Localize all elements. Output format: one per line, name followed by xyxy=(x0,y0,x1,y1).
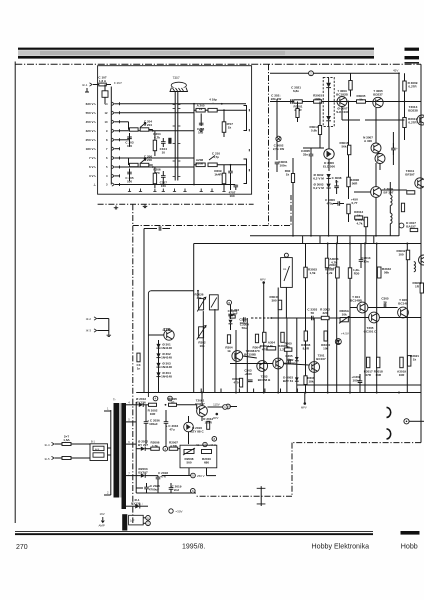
svg-text:5,6k: 5,6k xyxy=(311,128,317,132)
crystal on frame xyxy=(260,486,262,506)
svg-text:12: 12 xyxy=(105,111,108,115)
stub cap on x144 xyxy=(159,226,161,231)
svg-text:6 V∿: 6 V∿ xyxy=(89,165,97,169)
svg-text:Σ 2N7: Σ 2N7 xyxy=(114,81,122,85)
svg-text:33n: 33n xyxy=(303,152,308,156)
svg-text:6,2 V M: 6,2 V M xyxy=(313,176,324,180)
svg-text:10k: 10k xyxy=(323,346,328,350)
svg-text:47k: 47k xyxy=(196,296,201,300)
node 2 terminal xyxy=(309,71,314,76)
row wire 10 xyxy=(120,121,129,123)
svg-text:320 V∿: 320 V∿ xyxy=(86,129,97,133)
svg-text:470: 470 xyxy=(262,347,267,351)
res R305 xyxy=(284,348,292,351)
res R3021 xyxy=(408,356,411,367)
svg-text:7 V∿: 7 V∿ xyxy=(89,156,97,160)
terminal 4 xyxy=(153,396,158,401)
svg-text:10: 10 xyxy=(162,150,166,154)
svg-text:AVR: AVR xyxy=(95,448,100,451)
speaker coil upper xyxy=(387,407,391,417)
svg-text:B: B xyxy=(228,301,230,305)
preamp terminal B xyxy=(227,300,232,305)
capacitor C3010 xyxy=(391,148,396,150)
svg-text:2n2: 2n2 xyxy=(174,488,180,492)
block wires xyxy=(148,334,163,336)
schematic frame top border (dash-dot) xyxy=(15,63,421,65)
rail x=336.7 xyxy=(336,244,338,393)
transistor T2001 xyxy=(197,406,208,417)
top right margin bars xyxy=(405,48,420,51)
svg-text:3 V∿: 3 V∿ xyxy=(89,174,97,178)
transistor T304 xyxy=(357,302,368,313)
resistor R205 xyxy=(208,108,217,112)
svg-text:10k: 10k xyxy=(199,344,204,348)
input transistors T3008 xyxy=(232,351,243,362)
svg-text:680: 680 xyxy=(204,460,209,464)
schematic frame left border xyxy=(14,62,16,524)
tuner bottom dash-dot xyxy=(98,203,254,205)
capacitor C207 xyxy=(161,176,166,178)
diode D2013 xyxy=(139,403,143,407)
svg-text:MPV: MPV xyxy=(260,278,266,282)
svg-text:1,6A: 1,6A xyxy=(63,438,70,442)
svg-text:100: 100 xyxy=(161,184,166,188)
svg-text:BC182B: BC182B xyxy=(336,92,348,96)
resistor R3008 xyxy=(347,177,350,187)
terminal 10 xyxy=(226,404,231,409)
wire T3009 base row xyxy=(354,191,371,193)
resistor R204a xyxy=(140,128,149,131)
svg-text:1N4148: 1N4148 xyxy=(161,365,172,369)
tube stem lines xyxy=(174,92,176,181)
transistor T306 xyxy=(398,307,409,318)
res R3310 xyxy=(324,331,327,341)
diode D306 xyxy=(229,320,233,324)
diode D302 xyxy=(156,353,160,357)
svg-text:R30: R30 xyxy=(354,271,360,275)
MPV bottom node xyxy=(304,402,307,405)
res R3018 xyxy=(377,357,380,368)
tap 4 xyxy=(126,404,136,406)
extra cap C3005 xyxy=(309,154,314,156)
svg-text:100u: 100u xyxy=(353,378,360,382)
bus to T2001 xyxy=(201,393,203,406)
wire cap C3010 xyxy=(392,132,394,148)
capacitor C208 xyxy=(200,114,202,127)
svg-text:100uF: 100uF xyxy=(149,422,158,426)
svg-text:1,6 A: 1,6 A xyxy=(99,79,107,83)
tap 7 xyxy=(126,475,136,477)
svg-text:115V: 115V xyxy=(213,403,220,407)
svg-text:180R: 180R xyxy=(205,420,213,424)
svg-text:14: 14 xyxy=(105,102,108,106)
svg-text:47u: 47u xyxy=(169,427,174,431)
resistor R205a xyxy=(130,163,139,166)
cap C3304 xyxy=(244,317,246,322)
resistor R3022 xyxy=(407,191,415,194)
preamp trimmer R3026 xyxy=(199,299,204,310)
rail x=407.3 xyxy=(406,244,408,393)
svg-text:Ж-3: Ж-3 xyxy=(86,329,92,333)
bracket right bottom xyxy=(244,159,247,184)
trimmer arrow cluster A xyxy=(140,123,146,128)
svg-text:MPV: MPV xyxy=(213,417,219,420)
wire trio bases xyxy=(243,356,257,358)
svg-text:1k: 1k xyxy=(228,125,232,129)
transistor T3008b xyxy=(375,154,385,164)
res R304 xyxy=(267,347,276,350)
svg-text:10R: 10R xyxy=(150,412,156,416)
wire T3003 collector xyxy=(341,107,343,121)
cap C308 xyxy=(358,381,363,383)
sound section bottom dash-dot xyxy=(133,195,291,226)
svg-text:BY126 ↓: BY126 ↓ xyxy=(131,501,143,505)
svg-text:4,7W: 4,7W xyxy=(170,444,177,448)
trimmer R2008 xyxy=(184,450,194,454)
svg-text:1k: 1k xyxy=(357,213,361,217)
tuner bottom stubs xyxy=(128,189,131,192)
cap C2018 xyxy=(156,477,161,479)
svg-text:1n: 1n xyxy=(137,366,141,370)
transistor T3009 xyxy=(371,187,382,198)
svg-text:45V: 45V xyxy=(393,68,398,72)
resistor R207 xyxy=(222,122,226,133)
resistor R3009 xyxy=(403,81,406,91)
svg-text:BY297: BY297 xyxy=(138,470,148,474)
svg-text:BC107: BC107 xyxy=(316,357,326,361)
res R3033 xyxy=(348,268,351,279)
frame step bottom-right horizontal xyxy=(292,442,421,444)
svg-text:1,5k: 1,5k xyxy=(152,444,158,448)
svg-text:BD238: BD238 xyxy=(408,108,418,112)
frame bottom dash-dot to PSU xyxy=(196,495,292,497)
capacitor C3006 xyxy=(338,201,340,206)
svg-text:100: 100 xyxy=(127,179,132,183)
svg-text:MPV: MPV xyxy=(301,406,307,410)
transformer core gray xyxy=(119,403,122,498)
amp block top rail xyxy=(194,243,421,245)
wire to edge xyxy=(409,420,424,422)
svg-text:1k4R: 1k4R xyxy=(214,172,222,176)
diode D305 xyxy=(335,339,341,345)
resistor R208 xyxy=(208,163,217,167)
ground left tuner xyxy=(114,206,119,209)
main h-wire sound stage xyxy=(270,101,421,103)
res A3003 xyxy=(325,258,328,268)
svg-text:47n: 47n xyxy=(160,474,165,478)
svg-text:10: 10 xyxy=(105,120,108,124)
bracket right top xyxy=(244,106,247,131)
cap C3013 xyxy=(359,260,364,262)
transistor T302 xyxy=(273,358,284,369)
resistor R206a xyxy=(140,163,149,166)
top header halftone band xyxy=(18,50,374,56)
svg-text:+4,5V: +4,5V xyxy=(341,332,349,336)
svg-text:8,2R: 8,2R xyxy=(303,346,310,350)
choke L3001 xyxy=(390,195,392,206)
svg-text:BY126: BY126 xyxy=(136,400,146,404)
svg-text:Ж-2: Ж-2 xyxy=(86,317,92,321)
svg-text:100u: 100u xyxy=(240,321,247,325)
trimmer arrow cluster B xyxy=(140,159,146,164)
preamp vertical wires xyxy=(197,295,199,298)
svg-text:1995/8.: 1995/8. xyxy=(182,544,205,551)
transformer core bar right xyxy=(122,403,127,509)
lower long wire xyxy=(297,384,421,386)
input corner line xyxy=(151,290,194,292)
resistor A208 xyxy=(196,163,205,167)
svg-text:2,5k 1W: 2,5k 1W xyxy=(273,147,284,151)
svg-text:BF397: BF397 xyxy=(405,172,414,176)
resistor R3003 xyxy=(314,100,322,103)
cap C308 wires xyxy=(359,374,361,381)
wire T3005 emitter chain xyxy=(375,108,377,143)
row wire 8 xyxy=(120,139,130,141)
svg-text:BD237: BD237 xyxy=(373,92,383,96)
capacitor C211 xyxy=(228,171,233,173)
svg-text:56: 56 xyxy=(311,311,315,315)
T2001 emitter/collector wires xyxy=(201,416,203,421)
transistor edge T xyxy=(419,255,424,265)
svg-text:100n: 100n xyxy=(280,163,287,167)
D2016 wires xyxy=(188,416,190,422)
connector J1 arrow xyxy=(90,83,93,86)
tuner supply bus xyxy=(110,87,112,185)
feedback dashed xyxy=(251,317,270,319)
svg-text:1uF: 1uF xyxy=(232,311,238,315)
row wire 6 xyxy=(120,157,195,159)
svg-text:BAY 61: BAY 61 xyxy=(283,379,294,383)
row wire 3 xyxy=(120,184,236,186)
vertical drop wires xyxy=(302,236,304,244)
res R2006 xyxy=(151,447,160,450)
svg-text:1N4148: 1N4148 xyxy=(161,374,172,378)
svg-text:B-1: B-1 xyxy=(91,441,96,444)
svg-text:270: 270 xyxy=(16,544,28,551)
res R301 xyxy=(137,353,140,362)
cap C2003 xyxy=(336,267,340,278)
res R3047 xyxy=(278,300,281,310)
output box C xyxy=(129,515,144,525)
extra res R3013 xyxy=(318,126,321,135)
junction dots top rail xyxy=(327,243,329,245)
base row T304-T306 xyxy=(350,307,357,309)
svg-text:4,7k: 4,7k xyxy=(357,221,363,225)
transformer TR1 primary xyxy=(110,410,112,495)
svg-text:22k 1W: 22k 1W xyxy=(271,97,282,101)
tap 5 xyxy=(126,421,136,423)
svg-text:1,5k: 1,5k xyxy=(310,271,316,275)
svg-text:100: 100 xyxy=(127,144,132,148)
preamp trimmer R302 xyxy=(199,327,204,338)
mid rails xyxy=(235,330,237,393)
transistor T305 xyxy=(369,312,380,323)
row wire 14 xyxy=(120,103,247,105)
PSU top bus xyxy=(136,392,421,394)
psu vertical wires xyxy=(165,444,167,446)
wire R3030 column xyxy=(292,158,294,174)
resistor A205 xyxy=(196,108,205,112)
zener D2016 xyxy=(184,422,194,432)
junction dots main bus xyxy=(235,392,237,394)
speaker terminal xyxy=(404,419,409,424)
J2/J3 ground xyxy=(108,319,110,334)
diode D2012 xyxy=(141,447,145,451)
choke L300 xyxy=(414,262,416,272)
svg-text:2,2k: 2,2k xyxy=(327,271,333,275)
capacitor C104 xyxy=(161,142,166,144)
fuse C107 xyxy=(93,84,111,86)
node D3017 xyxy=(399,223,404,228)
svg-text:470: 470 xyxy=(254,349,259,353)
rail x=365 xyxy=(364,244,366,393)
svg-text:479: 479 xyxy=(163,327,171,333)
terminal 6 xyxy=(191,489,196,494)
svg-text:+: + xyxy=(396,147,398,151)
emitter row T305 xyxy=(340,317,369,319)
resistor R3001 xyxy=(294,100,303,103)
svg-text:10R: 10R xyxy=(375,373,381,377)
svg-text:AL: AL xyxy=(283,267,287,271)
wire y120 right xyxy=(365,119,405,121)
PSU board bottom xyxy=(136,492,196,494)
sound section divider vertical dash-dot xyxy=(268,64,270,226)
transistor pair T3007 xyxy=(371,143,381,153)
resistor R3012 xyxy=(355,216,363,219)
rail x=421 xyxy=(420,244,422,393)
C3002 lamp xyxy=(276,136,281,141)
svg-text:≈30V: ≈30V xyxy=(176,510,183,514)
svg-text:56k: 56k xyxy=(384,270,389,274)
capacitor C203 xyxy=(129,133,131,147)
svg-text:50u: 50u xyxy=(242,326,247,330)
top header rule (thick) xyxy=(18,56,374,59)
sound bottom bus xyxy=(250,235,399,237)
terminal 2 xyxy=(168,396,173,401)
wire y148 xyxy=(303,147,324,149)
ground below tuner xyxy=(143,204,148,207)
switch box under fuse xyxy=(102,91,108,98)
svg-text:⊥: ⊥ xyxy=(93,183,96,187)
wire T3009 down xyxy=(375,197,377,235)
res R2013 xyxy=(207,421,210,429)
svg-text:100R: 100R xyxy=(196,161,204,165)
svg-text:100k: 100k xyxy=(314,97,321,101)
svg-text:4,7k: 4,7k xyxy=(331,260,337,264)
svg-text:220: 220 xyxy=(322,311,327,315)
res R2007 xyxy=(169,447,178,450)
junction dots sound bus xyxy=(310,235,312,237)
svg-text:1N4148: 1N4148 xyxy=(161,355,172,359)
choke L3002 xyxy=(390,213,392,224)
diode D301 xyxy=(156,344,160,348)
relay terminal xyxy=(284,253,288,257)
preamp switch box xyxy=(209,295,218,310)
svg-text:56k: 56k xyxy=(341,144,346,148)
res R3040b xyxy=(227,335,230,344)
label ~230V xyxy=(169,509,173,513)
terminal 1b xyxy=(143,517,146,519)
resistor R209 xyxy=(222,173,226,184)
electrolytic blob xyxy=(168,138,171,144)
bottom footer rule thin xyxy=(15,531,373,532)
relay AL box xyxy=(281,258,293,288)
cap C2036 xyxy=(144,422,149,424)
res R3030 xyxy=(291,174,294,183)
ground stub C xyxy=(199,128,204,131)
res R2005 xyxy=(169,403,177,406)
svg-text:250 V∿: 250 V∿ xyxy=(86,138,97,142)
resistor R3002v xyxy=(296,109,299,118)
trim network box xyxy=(180,445,217,468)
svg-text:1k: 1k xyxy=(270,344,274,348)
wire node2 to +45V rail xyxy=(313,72,399,74)
svg-text:A 400: A 400 xyxy=(364,139,372,143)
svg-text:100: 100 xyxy=(229,194,234,198)
frame step vertical xyxy=(291,443,293,497)
svg-text:7307: 7307 xyxy=(173,76,180,80)
svg-text:BY 297: BY 297 xyxy=(138,443,148,447)
cap C2016 xyxy=(164,422,169,424)
res R3002 xyxy=(406,250,409,260)
svg-text:100: 100 xyxy=(398,252,403,256)
res R3308 xyxy=(304,331,307,341)
fuse F2 xyxy=(62,457,71,460)
svg-text:BC148: BC148 xyxy=(398,301,408,305)
svg-text:Ж-1: Ж-1 xyxy=(82,83,88,87)
transformer core bar left xyxy=(114,403,120,498)
wire C3005 column down xyxy=(310,163,312,236)
resistor R3004 xyxy=(349,81,352,91)
svg-text:250 V: 250 V xyxy=(197,474,205,478)
terminal 7 +44V xyxy=(203,442,207,446)
bus stubs up xyxy=(200,389,202,393)
svg-text:500: 500 xyxy=(186,460,191,464)
res R3017 xyxy=(367,357,370,368)
wire R3016 top xyxy=(348,102,350,146)
tap 6 xyxy=(126,443,136,445)
svg-text:1uF: 1uF xyxy=(130,519,135,523)
cap C2026 xyxy=(144,487,149,489)
row wire 5 xyxy=(120,166,195,168)
diode D301m xyxy=(295,357,299,361)
svg-text:1k: 1k xyxy=(359,97,363,101)
svg-text:56R: 56R xyxy=(352,181,358,185)
MPV psu node xyxy=(216,413,219,416)
cap C3001 xyxy=(275,162,280,164)
res R3053 xyxy=(304,267,307,278)
speaker coil lower xyxy=(387,429,391,439)
wires under trim network box xyxy=(188,468,190,476)
svg-text:390: 390 xyxy=(271,298,276,302)
res R3024 xyxy=(410,228,418,231)
transistor T303 xyxy=(257,361,268,372)
svg-text:470p: 470p xyxy=(327,201,334,205)
diode D3002 xyxy=(326,116,331,121)
svg-text:BC148B: BC148B xyxy=(350,298,362,302)
svg-text:1k: 1k xyxy=(199,107,203,111)
svg-text:S-KC108: S-KC108 xyxy=(336,110,349,114)
resistor R203 xyxy=(130,128,139,131)
bottom right margin bar xyxy=(401,531,420,535)
svg-text:10n: 10n xyxy=(363,259,368,263)
thyristor D3006 xyxy=(324,149,334,159)
wire choke column xyxy=(389,206,391,214)
res R1002 xyxy=(149,403,157,406)
svg-text:180 V∿: 180 V∿ xyxy=(86,147,97,151)
svg-text:4k: 4k xyxy=(287,345,291,349)
svg-text:1k: 1k xyxy=(227,349,231,353)
